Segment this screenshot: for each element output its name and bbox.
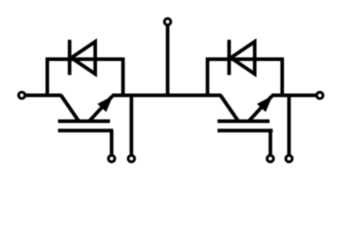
diode D2 [231, 42, 255, 74]
terminal E2 [317, 92, 323, 98]
diode D2 cathode bar [227, 40, 231, 75]
diode D1 cathode bar [68, 40, 72, 75]
wire midpoint rail [112, 94, 222, 98]
diode D1 [71, 42, 95, 74]
IGBT Q1 emitter arrowhead [97, 96, 113, 112]
wire C1 to collector junction [25, 94, 62, 98]
IGBT Q2 emitter arrowhead [257, 96, 273, 112]
terminal G1 [108, 155, 114, 161]
IGBT Q2 body bar [218, 119, 270, 123]
wire E2 aux stem [287, 95, 291, 156]
wire Q2 collector lead [221, 95, 239, 121]
terminal G2 [267, 155, 273, 161]
wire E1 aux stem [130, 95, 134, 156]
wire diode D1 loop [47, 59, 123, 95]
wire G2 stem [269, 131, 273, 156]
wire AC midpoint stem [166, 26, 170, 96]
IGBT Q1 body bar [58, 119, 110, 123]
wire Q2 emitter lead [249, 96, 272, 121]
terminal E2 aux [286, 155, 292, 161]
terminal E1 aux [128, 155, 134, 161]
wire G1 stem [110, 131, 114, 156]
terminal AC midpoint [164, 19, 170, 25]
wire E2 rail [271, 94, 316, 98]
wire diode D2 loop [208, 59, 283, 95]
wire Q1 emitter lead [89, 96, 112, 121]
terminal C1 [19, 92, 25, 98]
wire Q1 collector lead [61, 95, 79, 121]
IGBT Q2 gate bar [218, 129, 273, 133]
IGBT Q1 gate bar [58, 129, 113, 133]
